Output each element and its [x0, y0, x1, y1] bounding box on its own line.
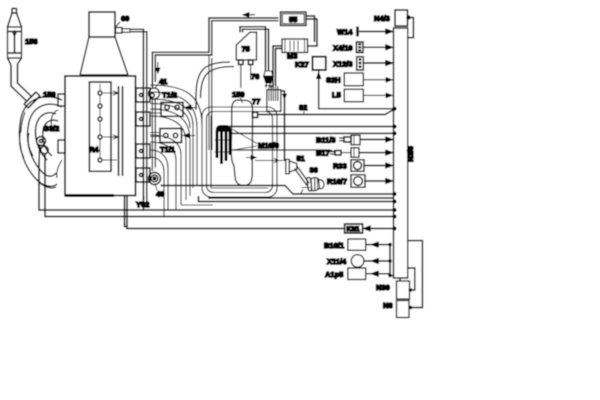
svg-text:B17: B17: [316, 149, 330, 158]
lamp L5: [344, 89, 363, 102]
shutoff valve 51: [255, 158, 309, 185]
svg-text:41: 41: [159, 77, 167, 86]
svg-text:K27: K27: [295, 60, 309, 69]
wire L5 to bus: [363, 93, 393, 97]
wire bus loop to N6 right: [408, 241, 423, 310]
resistor R33: [351, 160, 364, 171]
canister 77: [267, 86, 281, 111]
svg-text:W14: W14: [337, 28, 353, 37]
wire X11/4: [364, 259, 392, 263]
wire loop inner around center: [207, 112, 273, 193]
relay N6: [397, 301, 410, 318]
wire lower row y198 junction: [393, 200, 397, 204]
hose 75 to 76: [240, 27, 269, 71]
relay K3/1: [345, 224, 363, 233]
svg-text:N30: N30: [376, 283, 390, 292]
label 40: [156, 185, 165, 199]
wire R33 to bus: [364, 163, 393, 167]
sensor B11/3: [339, 135, 360, 145]
engine right pad 2: [136, 112, 150, 126]
engine right pad 1: [136, 88, 150, 102]
wire 77 to valve 51: [281, 91, 287, 161]
svg-text:K3/1: K3/1: [347, 226, 361, 233]
switch S2H: [344, 73, 363, 86]
wire S2H to bus: [363, 78, 393, 82]
wire M16/6 to B17: [229, 150, 337, 153]
svg-text:R33: R33: [333, 162, 347, 171]
svg-text:L5: L5: [332, 91, 341, 100]
R4 inner panel: [89, 82, 111, 171]
wire channel in block: [119, 86, 123, 176]
engine right pad 4: [136, 168, 150, 182]
exhaust manifold 156: [19, 94, 65, 188]
wire N4/3 to bus: [406, 15, 413, 37]
duct curve 6: [150, 142, 176, 210]
wire B17 to bus: [359, 150, 393, 154]
actuator M16/6: [215, 126, 233, 164]
label Y62: [136, 196, 149, 209]
label 41: [155, 77, 167, 88]
wire bus loop to N30 right: [408, 268, 415, 292]
svg-text:76: 76: [251, 72, 259, 81]
ignition coil T1/2: [149, 88, 160, 99]
arrow to pad row4: [103, 159, 117, 161]
wire riser x210: [199, 196, 394, 202]
wire G3/2 to bus (upper): [39, 146, 393, 211]
svg-text:55: 55: [289, 15, 297, 24]
svg-text:60: 60: [121, 14, 129, 23]
hose pad3 to coil box T1/1 lower: [150, 133, 160, 137]
svg-text:156: 156: [43, 90, 56, 99]
svg-text:40: 40: [156, 190, 164, 199]
hose branch down to center: [209, 55, 212, 150]
sensor B17: [330, 148, 359, 157]
big air duct to 159: [196, 62, 230, 110]
wire y194: [161, 186, 394, 195]
svg-text:R4: R4: [89, 145, 99, 154]
hose M3 left to canister 77: [273, 46, 282, 88]
svg-text:N4/3: N4/3: [374, 14, 390, 23]
wire row B to bus: [229, 131, 397, 135]
svg-text:158: 158: [25, 37, 38, 46]
svg-text:B11/3: B11/3: [316, 136, 336, 145]
engine right pad 3: [136, 144, 150, 158]
svg-text:X11/4: X11/4: [327, 257, 347, 266]
duct curve 1c: [150, 104, 190, 129]
svg-text:M16/6: M16/6: [258, 141, 279, 150]
duct curve 5: [150, 135, 181, 205]
svg-text:X12/3: X12/3: [333, 60, 353, 69]
hose 55 to T1/2: [152, 18, 278, 88]
wire G3/2 junctions: [393, 208, 397, 212]
port 82 stub: [252, 112, 257, 117]
svg-text:X4/10: X4/10: [333, 44, 353, 53]
svg-text:159: 159: [232, 90, 245, 99]
connector X4/10: [356, 42, 393, 53]
label M16/6 with pointers: [233, 130, 279, 151]
engine block: [65, 76, 136, 196]
wire bus to N30: [399, 278, 401, 281]
module A1p5: [348, 268, 366, 280]
connector X12/3: [357, 57, 393, 70]
vacuum pump 36: [301, 177, 325, 194]
duct curve 1b: [150, 99, 193, 188]
control unit bus N3/8: [394, 28, 408, 278]
wire K3/1 to bus: [363, 226, 397, 230]
wire G3/2 to bus (lower): [45, 154, 393, 217]
svg-text:51: 51: [297, 154, 305, 163]
O2 sensor G3/2: [37, 137, 49, 154]
throttle body 159: [231, 100, 252, 185]
svg-text:N6: N6: [383, 301, 393, 310]
pump M3: [282, 39, 308, 53]
duct curve 1: [150, 85, 202, 125]
sensor B16/1: [348, 239, 366, 250]
arrow on hose 55: [243, 13, 255, 17]
intake funnel: [80, 37, 128, 75]
svg-text:B16/1: B16/1: [324, 241, 344, 250]
duct curve 4: [150, 116, 186, 200]
wire lower row y194 junction: [393, 192, 397, 196]
relay K27: [313, 57, 326, 70]
wire R16/7 to bus: [365, 179, 393, 183]
svg-text:36: 36: [310, 166, 318, 175]
check valve 76: [264, 71, 274, 88]
wire loop third: [211, 116, 268, 189]
duct curve 2: [150, 92, 197, 185]
wire B16/1: [366, 242, 392, 246]
svg-text:75: 75: [242, 45, 250, 54]
wire K27 to bus: [317, 70, 397, 111]
wire 82: [258, 109, 394, 114]
svg-text:G3/2: G3/2: [43, 124, 59, 133]
svg-text:R16/7: R16/7: [327, 177, 347, 186]
wire A1p5: [366, 245, 394, 278]
svg-text:N3/8: N3/8: [406, 146, 415, 162]
grommet 40: [149, 173, 161, 185]
HT lead T1/2 to grommet 40: [152, 100, 155, 172]
catalytic converter 158: [8, 9, 41, 109]
duct curve 8: [150, 157, 164, 217]
hose 55 right to M3: [306, 16, 317, 46]
spark plug circles R4: [98, 84, 102, 162]
hose 60 down to engine bottom: [130, 29, 147, 211]
label 159: [232, 90, 245, 103]
wire engine to K3/1: [125, 196, 345, 229]
relay N30: [397, 281, 410, 299]
duct curve 7: [150, 150, 168, 210]
duct curve 3: [150, 109, 190, 196]
wire y198: [208, 197, 393, 199]
module N4/3: [395, 10, 408, 26]
svg-text:Y62: Y62: [136, 200, 149, 209]
box 55: [281, 12, 307, 26]
arrow 41 down: [156, 62, 160, 73]
terminal W14: [358, 27, 394, 37]
air filter box: [89, 12, 115, 37]
svg-text:82: 82: [299, 103, 307, 112]
wire B11/3 to bus: [360, 137, 393, 141]
hose pad2 to coil box T1/1 upper: [150, 109, 161, 113]
wire row A to bus: [229, 125, 397, 129]
coil box T1/1 lower: [160, 129, 195, 143]
coil box T1/1 upper: [161, 103, 197, 117]
arrow to pad row3: [103, 135, 118, 139]
sensor 60: [116, 22, 131, 33]
hose pad4 to grommet 40: [149, 175, 151, 177]
svg-text:A1p5: A1p5: [325, 270, 343, 279]
svg-text:77: 77: [252, 97, 260, 106]
arrow to pad row1: [103, 91, 118, 95]
svg-text:S2H: S2H: [326, 76, 341, 85]
arrow in loop: [246, 156, 256, 160]
damper 75: [236, 32, 256, 88]
connector X11/4: [351, 255, 364, 268]
risers to lower bus wires: [176, 205, 393, 210]
wire loop outer around center: [202, 107, 277, 197]
resistor R16/7: [351, 175, 365, 187]
